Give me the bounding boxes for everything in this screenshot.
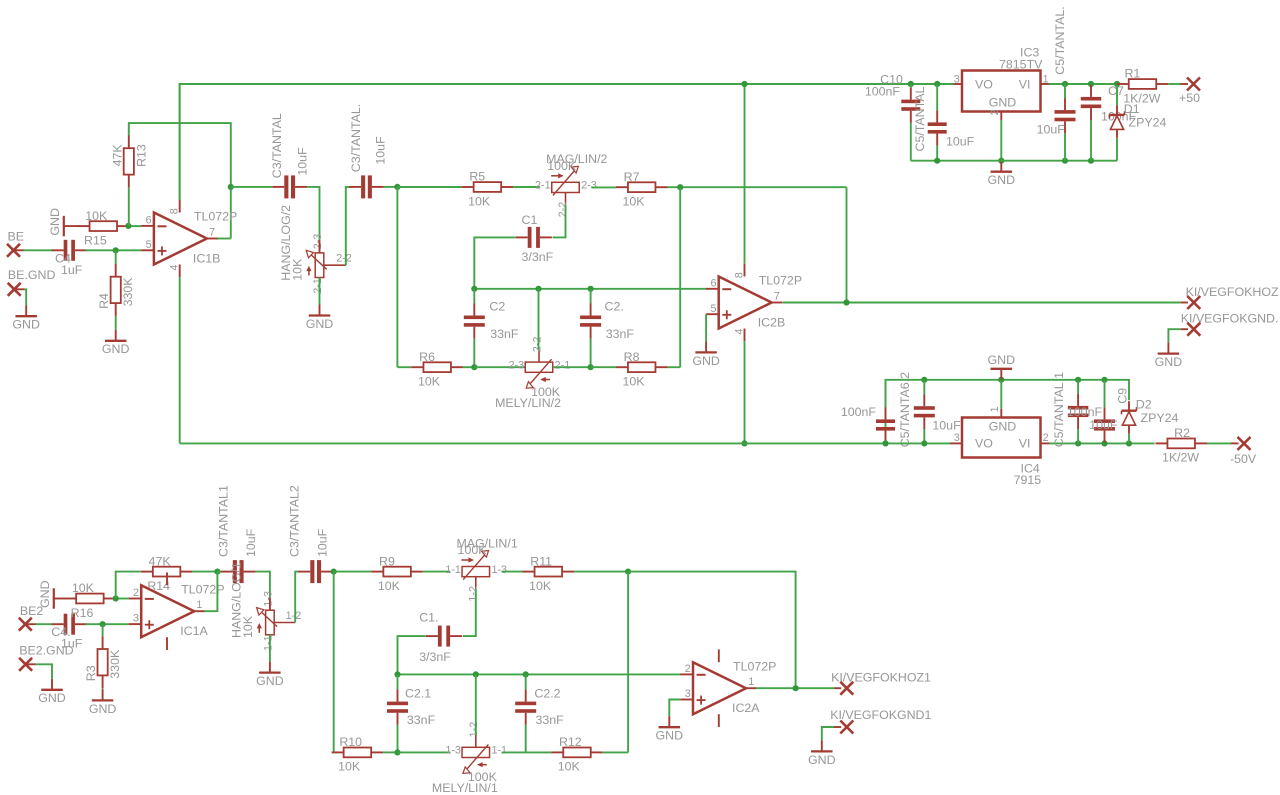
junction C1./C2.1 [394, 671, 400, 677]
svg-text:100nF: 100nF [1067, 405, 1103, 419]
diode D1 ZPY24 [1110, 84, 1167, 138]
svg-text:1-1: 1-1 [445, 564, 461, 576]
capacitor C7 [1081, 84, 1137, 161]
svg-text:2-2: 2-2 [336, 253, 352, 265]
svg-text:IC1A: IC1A [180, 624, 208, 638]
capacitor C2.2 [515, 674, 564, 752]
label KI/VEGFOKGND1 [830, 708, 931, 722]
wire pin5 node to R4 [115, 250, 117, 264]
svg-text:C2.: C2. [605, 300, 624, 314]
svg-text:47K: 47K [110, 144, 124, 167]
svg-text:R16: R16 [71, 606, 94, 620]
svg-text:5: 5 [710, 303, 716, 315]
pin lead -50V [1231, 442, 1239, 444]
wire pin4 IC1B to -15V rail [179, 277, 181, 443]
wire MELY wiper up bottom ch [475, 674, 477, 734]
pin lead pot HANG/LOG/2 [319, 240, 321, 253]
junction node pin6 [125, 223, 131, 229]
svg-text:2: 2 [989, 109, 1001, 115]
ground at HANG/LOG/1 [256, 662, 284, 688]
ground BE.GND [12, 305, 40, 331]
svg-text:10K: 10K [468, 194, 491, 208]
wire R9 to MAG/LIN/1 [423, 571, 450, 573]
svg-text:2-2: 2-2 [531, 337, 543, 353]
op-amp IC1B [141, 200, 237, 278]
svg-text:10uF: 10uF [932, 419, 961, 433]
diode D2 ZPY24 [1122, 398, 1179, 444]
wire MELY to R12 [502, 751, 552, 753]
svg-text:100nF: 100nF [841, 405, 877, 419]
svg-text:C2.1: C2.1 [405, 687, 431, 701]
wire R13 to pin6 node [128, 187, 130, 226]
pin2 IC3 lead [1000, 112, 1002, 121]
pin3 IC4 lead [950, 442, 962, 444]
trimmer MAG/LIN/2 [535, 152, 607, 217]
pin lead KI/VEGFOKGND1 [834, 726, 841, 728]
label -50V [1230, 452, 1257, 466]
svg-text:R4: R4 [97, 293, 111, 309]
capacitor C1 [516, 213, 554, 264]
svg-text:MELY/LIN/1: MELY/LIN/1 [432, 781, 498, 795]
svg-text:1-2: 1-2 [468, 722, 480, 738]
svg-text:8: 8 [733, 272, 745, 278]
junction D2 bottom [1126, 440, 1132, 446]
capacitor C4. [51, 614, 87, 651]
svg-text:R8: R8 [624, 350, 640, 364]
svg-text:C2.2: C2.2 [534, 687, 560, 701]
svg-text:IC1B: IC1B [193, 252, 221, 266]
resistor R16 [64, 581, 116, 620]
junction C5/TANTAL bottom [934, 158, 940, 164]
pin3 IC3 lead [953, 83, 962, 85]
wire middle to pin6 IC2B [474, 288, 706, 290]
wire BE2 to C4. [36, 623, 53, 625]
svg-text:IC2B: IC2B [758, 316, 786, 330]
junction C10 top [908, 81, 914, 87]
capacitor C4 [52, 240, 87, 277]
pin lead KI/VEGFOKHOZ [1181, 302, 1188, 304]
svg-text:GND: GND [89, 702, 117, 716]
svg-text:7815TV: 7815TV [999, 58, 1043, 72]
wire pot wiper to C3/TANTAL2 [295, 572, 298, 623]
label KI/VEGFOKGND. [1181, 311, 1279, 325]
svg-text:VO: VO [975, 437, 993, 451]
terminal BE2 [19, 618, 32, 631]
wire output IC2A [756, 687, 835, 689]
regulator IC3 7815TV [954, 46, 1049, 116]
svg-text:10K: 10K [378, 579, 401, 593]
junction R7/feedback [677, 184, 683, 190]
svg-text:TL072P: TL072P [759, 274, 802, 288]
svg-text:1-3: 1-3 [491, 564, 507, 576]
pin lead +50 [1181, 83, 1189, 85]
terminal BE.GND [8, 283, 21, 296]
terminal BE [7, 244, 20, 257]
terminal KI/VEGFOKGND. [1187, 323, 1200, 336]
capacitor C3/TANTAL1 [217, 485, 258, 583]
svg-text:33nF: 33nF [490, 327, 519, 341]
svg-text:GND: GND [256, 674, 284, 688]
resistor R8 [616, 350, 668, 389]
wire to MELY/LIN/1 [398, 751, 451, 753]
label BE2 [20, 604, 44, 618]
capacitor C5/TANTAL. 10uF [1037, 6, 1076, 160]
wire MELY to C2. node [553, 366, 591, 368]
svg-text:330K: 330K [121, 277, 135, 307]
label KI/VEGFOKHOZ1 [831, 670, 931, 684]
wire R15 to pin6 [127, 225, 141, 227]
junction 10uF. top [1101, 377, 1107, 383]
svg-text:1K/2W: 1K/2W [1123, 91, 1160, 105]
wire IC4 input node [1050, 442, 1155, 444]
svg-text:R9: R9 [379, 554, 395, 568]
svg-text:R6: R6 [419, 350, 435, 364]
pin lead BE2 [25, 623, 35, 625]
wire R11 to node [574, 571, 628, 573]
svg-text:33nF: 33nF [606, 327, 635, 341]
svg-text:R13: R13 [134, 144, 148, 167]
svg-text:2: 2 [1043, 432, 1049, 444]
wire to node [332, 571, 335, 573]
wire pin7 to node [230, 187, 232, 239]
wire feedback vertical bottom ch [627, 572, 629, 753]
svg-text:GND: GND [989, 419, 1017, 433]
capacitor C2.1 [387, 674, 436, 752]
svg-text:ZPY24: ZPY24 [1141, 411, 1179, 425]
junction 10uF. bottom [1101, 440, 1107, 446]
svg-text:1: 1 [196, 599, 202, 611]
junction C7 top [1088, 81, 1094, 87]
regulator IC4 7915 [954, 406, 1049, 486]
resistor R9 [371, 554, 423, 593]
wire D1 to gnd rail [1116, 138, 1118, 161]
ground at R16 [38, 580, 67, 608]
wire to R8 [591, 366, 617, 368]
svg-text:3: 3 [954, 432, 960, 444]
wire R14 to node [192, 571, 217, 573]
svg-text:5: 5 [146, 239, 152, 251]
junction R14/C3.TANTAL1/out [214, 569, 220, 575]
svg-text:1: 1 [989, 406, 1001, 412]
svg-text:10K: 10K [85, 209, 108, 223]
svg-text:BE.GND: BE.GND [8, 268, 56, 282]
junction C2.2 [523, 671, 529, 677]
op-amp IC2A [680, 649, 776, 727]
svg-text:C2: C2 [489, 300, 505, 314]
svg-text:2-2: 2-2 [557, 202, 569, 218]
svg-text:R5: R5 [469, 170, 485, 184]
svg-text:3/3nF: 3/3nF [522, 250, 554, 264]
svg-text:C5/TANTAL.: C5/TANTAL. [1053, 6, 1067, 74]
svg-text:4: 4 [733, 328, 745, 334]
ground at HANG/LOG/2 [306, 305, 334, 331]
svg-text:100K: 100K [458, 543, 488, 557]
svg-text:GND: GND [808, 753, 836, 767]
svg-text:10uF: 10uF [315, 528, 329, 557]
svg-text:ZPY24: ZPY24 [1129, 115, 1167, 129]
wire output IC1B [216, 238, 230, 240]
ground at IC2A [656, 716, 684, 742]
wire node to R9 [334, 571, 372, 573]
capacitor C2. [580, 289, 634, 367]
wire C3/TANTAL to pot HANG/LOG/2 [307, 187, 319, 240]
svg-text:GND: GND [48, 208, 62, 236]
junction C5/TANTAL top [934, 81, 940, 87]
wire BE.GND to gnd [24, 289, 26, 305]
resistor R12 [551, 735, 603, 774]
svg-text:C3/TANTAL.: C3/TANTAL. [349, 104, 363, 172]
wire pin3 node to R3 [102, 624, 104, 636]
wire +15V to pin8 IC2B [744, 84, 746, 264]
junction MELY wiper [535, 286, 541, 292]
capacitor C5/TANTAL [913, 84, 975, 161]
op-amp IC2B [706, 264, 802, 342]
ground at R4 [102, 330, 130, 356]
ground at KI/VEGFOKGND1 [808, 740, 836, 766]
svg-text:1-1: 1-1 [491, 745, 507, 757]
terminal KI/VEGFOKGND1 [840, 721, 853, 734]
terminal KI/VEGFOKHOZ [1187, 296, 1200, 309]
wire R4 to gnd [115, 316, 117, 330]
wire +15V to pin8 IC1B [179, 84, 181, 200]
svg-text:1: 1 [748, 676, 754, 688]
terminal BE2.GND [19, 658, 32, 671]
svg-text:10uF: 10uF [374, 136, 388, 165]
pin lead BE2.GND [26, 663, 36, 665]
wire to C3/TANTAL1 [217, 571, 221, 573]
svg-text:8: 8 [169, 208, 181, 214]
junction gnd rail [998, 158, 1004, 164]
wire pot to gnd [319, 278, 321, 305]
capacitor C3/TANTAL [270, 113, 310, 198]
junction output node bottom ch [793, 685, 799, 691]
trimmer MAG/LIN/1 [445, 536, 517, 601]
wire to R6 [397, 366, 411, 368]
capacitor C6 100nF [841, 380, 895, 444]
svg-text:+50: +50 [1179, 91, 1200, 105]
svg-text:10uF: 10uF [946, 134, 975, 148]
wire C3/TANTAL1 to pot [256, 572, 270, 598]
capacitor C1. [419, 610, 462, 664]
svg-text:1-2: 1-2 [467, 586, 479, 602]
wire R8 to feedback [668, 366, 681, 368]
resistor R2 [1155, 426, 1207, 465]
svg-text:330K: 330K [108, 649, 122, 679]
wire IC3 gnd [1000, 120, 1002, 161]
svg-text:3: 3 [133, 613, 139, 625]
junction feedback/output IC1B [228, 184, 234, 190]
svg-text:VI: VI [1019, 77, 1031, 91]
junction C7 bottom [1088, 158, 1094, 164]
junction top node [394, 184, 400, 190]
svg-text:3: 3 [685, 688, 691, 700]
terminal -50V [1238, 437, 1251, 450]
svg-text:10uF: 10uF [296, 147, 310, 176]
svg-text:KI/VEGFOKGND1: KI/VEGFOKGND1 [830, 708, 931, 722]
svg-text:7915: 7915 [1014, 473, 1042, 487]
svg-text:BE2.GND: BE2.GND [19, 643, 73, 657]
wire R16 to pin2 [116, 598, 129, 600]
wire MAG/LIN/2 to R7 [591, 186, 616, 188]
ground at IC3 [988, 161, 1016, 187]
label C5/TANTAL.1 [1052, 372, 1066, 447]
wire gnd rail bottom section [886, 380, 1130, 444]
svg-text:1uF: 1uF [61, 263, 83, 277]
svg-text:C7: C7 [1108, 84, 1124, 98]
wire BE to C4 [24, 249, 53, 251]
ground above IC4 [988, 353, 1016, 380]
ground BE2.GND [38, 679, 66, 705]
label C9 [1115, 388, 1129, 404]
svg-text:GND: GND [12, 318, 40, 332]
wire KI/VEGFOKGND1 to gnd [822, 727, 834, 740]
svg-text:C5/TANTAL: C5/TANTAL [913, 86, 927, 151]
svg-text:C1.: C1. [419, 610, 438, 624]
svg-text:2-3: 2-3 [312, 234, 324, 250]
wire C1 to middle node [474, 237, 515, 288]
svg-text:GND: GND [306, 317, 334, 331]
svg-text:7: 7 [774, 290, 780, 302]
trimmer MELY/LIN/2 [495, 337, 570, 410]
svg-text:2: 2 [133, 587, 139, 599]
ground at R3 [89, 689, 117, 715]
wire to MELY/LIN/2 [474, 366, 526, 368]
wire R10 to C2.1 node [383, 751, 397, 753]
svg-text:C3/TANTAL: C3/TANTAL [270, 113, 284, 178]
junction MELY wiper bottom ch [473, 671, 479, 677]
pin lead pot HANG/LOG/1 [269, 598, 271, 611]
svg-text:IC2A: IC2A [732, 701, 760, 715]
junction R11/feedback [625, 569, 631, 575]
trimmer HANG/LOG/1 [229, 562, 301, 651]
svg-text:1-2: 1-2 [286, 610, 302, 622]
junction 100nF top [1075, 377, 1081, 383]
pin lead KI/VEGFOKHOZ1 [835, 687, 842, 689]
wire +15V rail [180, 84, 954, 200]
svg-text:10uF: 10uF [1037, 122, 1066, 136]
svg-text:1-3: 1-3 [445, 745, 461, 757]
wire R12 to feedback [603, 751, 628, 753]
svg-text:VO: VO [975, 77, 993, 91]
junction C3/TANTAL2/R9 [331, 569, 337, 575]
svg-text:10uF: 10uF [1089, 418, 1118, 432]
svg-text:C5/TANTAL.1: C5/TANTAL.1 [1052, 372, 1066, 447]
resistor R4 [97, 264, 135, 316]
resistor R1 [1117, 67, 1169, 106]
capacitor C6.1 10uF [914, 380, 961, 444]
label BE2.GND [19, 643, 73, 657]
svg-text:33nF: 33nF [536, 713, 565, 727]
resistor R6 [411, 350, 463, 389]
label C5/TANTA6.2 [898, 372, 912, 447]
resistor R7 [616, 170, 668, 209]
svg-text:10K: 10K [72, 581, 95, 595]
wire R6 to C2 node [463, 366, 474, 368]
wire node down to R10 [333, 572, 335, 753]
svg-text:47K: 47K [149, 554, 172, 568]
wire node to R5 [397, 186, 461, 188]
terminal +50 [1187, 78, 1200, 91]
svg-text:2-1: 2-1 [535, 180, 551, 192]
wire R5 to MAG/LIN/2 [513, 186, 540, 188]
svg-text:R10: R10 [339, 735, 362, 749]
svg-text:R11: R11 [530, 554, 552, 568]
svg-text:D2: D2 [1136, 398, 1152, 412]
wire -15V rail [180, 442, 950, 444]
svg-text:2-3: 2-3 [509, 359, 525, 371]
resistor R13 [110, 135, 148, 187]
wire middle to pin2 IC2A [398, 673, 681, 675]
pin lead KI/VEGFOKGND. [1181, 328, 1188, 330]
svg-text:GND: GND [989, 96, 1017, 110]
svg-text:4: 4 [169, 264, 181, 270]
junction +15V/IC2B [741, 81, 747, 87]
junction 10uF/-15V [921, 440, 927, 446]
wire pin4 IC2B to -15V [744, 341, 746, 443]
svg-text:BE: BE [8, 229, 25, 243]
ground at KI/VEGFOKGND. [1155, 343, 1183, 369]
trimmer MELY/LIN/1 [432, 722, 507, 795]
svg-text:C3/TANTAL1: C3/TANTAL1 [217, 485, 231, 557]
wire C4. to pin3 [85, 623, 128, 625]
wire R2 to -50V [1207, 442, 1231, 444]
wire IC4 gnd up [1000, 380, 1002, 409]
junction -15V/IC2B [741, 440, 747, 446]
junction IC4 gnd [998, 377, 1004, 383]
svg-text:10K: 10K [241, 615, 255, 638]
svg-text:7: 7 [209, 226, 215, 238]
svg-text:C9: C9 [1115, 388, 1129, 404]
wire pot wiper to C3/TANTAL. [346, 187, 354, 265]
junction 100nF bottom [1075, 440, 1081, 446]
junction C2. bottom [588, 364, 594, 370]
wire C1. to middle node [398, 636, 426, 674]
svg-text:6: 6 [146, 215, 152, 227]
wire MAG/LIN/1 to R11 [502, 571, 523, 573]
capacitor C10 [865, 73, 920, 161]
junction 10uF top [1062, 81, 1068, 87]
svg-text:GND: GND [692, 354, 720, 368]
terminal KI/VEGFOKHOZ1 [840, 682, 853, 695]
svg-text:100K: 100K [547, 159, 577, 173]
svg-text:100nF: 100nF [865, 84, 901, 98]
wire C3/TANTAL. to node [384, 186, 397, 188]
svg-text:3/3nF: 3/3nF [419, 650, 451, 664]
trimmer HANG/LOG/2 [279, 205, 352, 294]
svg-text:TL072P: TL072P [194, 210, 237, 224]
wire pin5 to gnd [705, 314, 707, 341]
svg-text:10K: 10K [558, 760, 581, 774]
wire down to output node [846, 187, 848, 302]
junction 10uF bottom [1062, 158, 1068, 164]
junction pin2 node [113, 595, 119, 601]
svg-text:KI/VEGFOKHOZ1: KI/VEGFOKHOZ1 [831, 670, 931, 684]
svg-text:10K: 10K [529, 579, 552, 593]
svg-text:10K: 10K [291, 258, 305, 281]
junction D1 top [1114, 81, 1120, 87]
junction pin3/R3 [100, 621, 106, 627]
svg-text:1-1: 1-1 [262, 635, 274, 651]
junction node pin5/R4 [113, 247, 119, 253]
svg-text:10K: 10K [338, 760, 361, 774]
wire KI/VEGFOKGND. to gnd [1168, 329, 1180, 342]
label KI/VEGFOKHOZ [1186, 285, 1279, 299]
junction C2 bottom [471, 364, 477, 370]
resistor R15 [78, 209, 130, 248]
wire node down to R6 [396, 187, 398, 367]
svg-text:1K/2W: 1K/2W [1162, 451, 1199, 465]
capacitor 10uF right [1089, 380, 1118, 444]
